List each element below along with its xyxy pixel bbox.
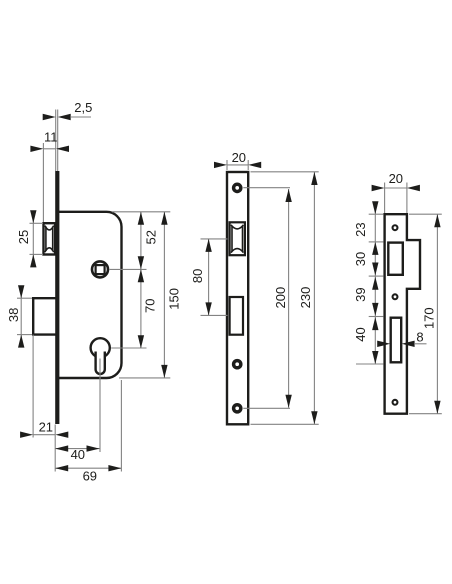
svg-text:52: 52 [143, 230, 158, 244]
svg-text:25: 25 [16, 230, 31, 244]
dimension 52/70 line [140, 212, 142, 348]
spindle follower hole [92, 261, 108, 277]
dimension 25 extension lines [30, 222, 44, 224]
screw hole bottom (faceplate) [234, 405, 241, 412]
strike plate outline [385, 214, 420, 414]
dimension 40 line and arrows [55, 448, 99, 450]
svg-text:230: 230 [298, 287, 313, 309]
svg-text:20: 20 [232, 150, 246, 165]
faceplate extension line down [54, 425, 56, 472]
faceplate face extension lines (for 2,5) [55, 110, 57, 172]
dimension 200 line and arrows [288, 189, 290, 408]
svg-text:11: 11 [44, 129, 58, 144]
chain arrow 39 bottom [372, 303, 378, 316]
dimension 21 line and arrows [33, 434, 55, 436]
deadbolt cutout (faceplate) [230, 297, 243, 335]
chain arrow 40 bottom [372, 351, 378, 364]
chain dimension line [374, 205, 376, 364]
dimension 69 line and arrows [55, 467, 121, 469]
chain arrow 39 top [372, 277, 378, 290]
screw hole middle (faceplate) [234, 361, 241, 368]
svg-text:80: 80 [190, 269, 205, 283]
svg-text:40: 40 [353, 327, 368, 341]
roller front extension line [42, 143, 44, 223]
roller cutout (faceplate) [230, 222, 245, 255]
roller latch (side view) [44, 223, 56, 254]
screw hole top (faceplate) [234, 184, 241, 191]
dimension 8 arrows and leader [377, 341, 390, 347]
case right edge extension line down [120, 380, 122, 472]
svg-text:23: 23 [353, 222, 368, 236]
svg-text:2,5: 2,5 [74, 100, 92, 115]
screw hole bottom leader [243, 407, 290, 409]
dimension 20 line and arrows (right) [385, 187, 407, 189]
dimension 38 extension lines [17, 297, 32, 299]
faceplate top extension right [251, 171, 319, 173]
svg-text:39: 39 [353, 287, 368, 301]
screw hole middle (strike) [393, 294, 398, 299]
spindle leader line [110, 268, 147, 270]
dimension 38 line and arrows [20, 286, 22, 348]
svg-text:150: 150 [166, 288, 181, 310]
keyhole centre extension line down [99, 359, 101, 453]
svg-text:30: 30 [353, 252, 368, 266]
dimension 2,5 arrows and leader [43, 114, 56, 120]
faceplate front view [227, 172, 248, 424]
svg-text:170: 170 [421, 307, 436, 329]
svg-text:200: 200 [273, 287, 288, 309]
svg-text:8: 8 [416, 329, 423, 344]
euro cylinder keyhole [91, 338, 110, 357]
chain arrow 30 top [372, 242, 378, 255]
keyhole leader line [111, 347, 146, 349]
dimension 80 line and arrows [208, 239, 210, 316]
svg-text:70: 70 [143, 299, 158, 313]
screw hole top leader [243, 187, 290, 189]
dimension 80 extension lines [201, 238, 228, 240]
faceplate edge (side view, filled bar) [55, 171, 59, 424]
svg-text:20: 20 [389, 171, 403, 186]
svg-text:21: 21 [39, 420, 53, 435]
dimension 230 line and arrows [313, 172, 315, 424]
dimension 170 line and arrows [436, 214, 438, 414]
dimension 11 line and arrows [43, 148, 56, 150]
dimension 20 extension lines (right) [384, 183, 386, 214]
chain arrow 30 bottom [372, 263, 378, 276]
deadbolt front extension line down [32, 335, 34, 438]
faceplate bottom extension right [251, 423, 319, 425]
dimension 170 extension lines [409, 213, 442, 215]
dimension 20 extension lines (middle) [226, 160, 228, 170]
deadbolt cutout (strike) [391, 318, 402, 363]
dimension 20 line and arrows (middle) [227, 164, 248, 166]
chain arrow 40 top [372, 317, 378, 330]
dimension 150 line and arrows [163, 212, 165, 378]
case bottom extension line right [119, 377, 170, 379]
dimension 25 line and arrows [32, 211, 34, 268]
chain extension lines [369, 213, 384, 215]
latch cutout (strike) [388, 243, 403, 275]
screw hole top (strike) [393, 225, 398, 230]
deadbolt (side view) [33, 298, 55, 334]
svg-text:40: 40 [71, 447, 85, 462]
lock case outline [59, 212, 122, 378]
screw hole bottom (strike) [393, 400, 398, 405]
svg-text:69: 69 [83, 468, 97, 483]
chain arrow at plate top [372, 201, 378, 214]
case top extension line right [112, 211, 170, 213]
svg-text:38: 38 [6, 308, 21, 322]
